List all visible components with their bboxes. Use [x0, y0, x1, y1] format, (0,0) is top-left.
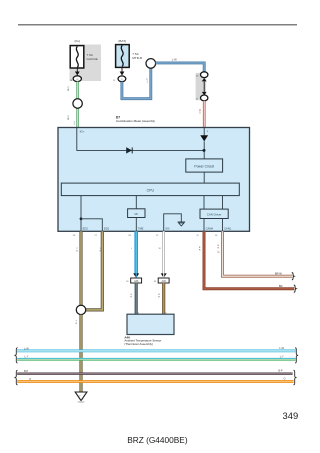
connector arrow down: [202, 92, 207, 95]
CAN driver box: [200, 209, 228, 218]
svg-text:L-Y: L-Y: [25, 356, 29, 359]
fuse F2 output lead: [121, 67, 123, 71]
continuation brace CANH: [294, 285, 296, 292]
svg-text:TME: TME: [138, 226, 144, 230]
svg-text:O: O: [284, 377, 286, 380]
wire R (to meter): [203, 101, 206, 128]
svg-text:I/F: I/F: [134, 212, 138, 216]
svg-text:(Thermistor Assembly): (Thermistor Assembly): [124, 342, 152, 346]
bus line B-P: [17, 373, 292, 375]
diode D: [126, 147, 132, 153]
svg-text:L-W: L-W: [24, 348, 29, 351]
connector oval (junction in): [201, 72, 208, 78]
svg-text:MTR-B: MTR-B: [132, 56, 142, 60]
bus brace left upper: [15, 348, 18, 363]
internal wire ED1 branch: [81, 219, 102, 232]
connector arrow into block (R wire): [203, 128, 205, 136]
svg-text:O: O: [29, 378, 31, 381]
internal wire TME: [135, 218, 137, 232]
internal wire to power circuit: [203, 141, 205, 159]
fuse block backdrop (IG): [70, 45, 102, 82]
svg-text:CANH: CANH: [206, 226, 214, 230]
connector oval (BAT fuse output): [118, 76, 126, 82]
wire to ground: [79, 315, 82, 392]
svg-text:L-W: L-W: [279, 347, 284, 350]
svg-text:CANL: CANL: [224, 226, 232, 230]
svg-text:GAUGE: GAUGE: [87, 57, 98, 61]
svg-text:A46: A46: [162, 280, 167, 283]
connector arrow into oval (IG): [75, 72, 80, 76]
svg-text:(IG): (IG): [75, 39, 80, 43]
svg-text:1J: 1J: [121, 79, 123, 81]
svg-text:CPU: CPU: [147, 189, 155, 193]
power circuit box: [186, 159, 223, 172]
svg-text:BR: BR: [279, 284, 283, 288]
svg-text:SO-: SO-: [165, 226, 170, 230]
bus line L-Y: [17, 358, 295, 360]
combination meter block D7: [58, 128, 250, 232]
bus brace right lower: [293, 370, 296, 385]
junction dot: [203, 149, 206, 152]
junction connector JC backdrop: [196, 73, 207, 100]
ground symbol: [75, 392, 87, 401]
internal wire SO- to ground: [164, 214, 182, 232]
svg-text:ED1: ED1: [104, 226, 110, 230]
svg-text:Combination Meter Assembly: Combination Meter Assembly: [116, 119, 156, 123]
ambient temperature sensor box A46: [127, 314, 174, 334]
internal wire IG+ run: [77, 128, 204, 151]
svg-text:IG+: IG+: [80, 129, 85, 133]
continuation brace CANL: [292, 273, 294, 280]
connector arrow (SO-): [161, 273, 167, 278]
fuse F1 output lead: [76, 68, 78, 72]
connector C2: [158, 278, 169, 283]
connector arrow (TME): [133, 273, 139, 278]
wire L (BAT feed loop): [122, 68, 151, 99]
svg-text:A46: A46: [134, 280, 139, 283]
wire SO- (W): [162, 231, 165, 273]
bus brace right upper: [295, 348, 298, 363]
CPU box: [61, 183, 239, 196]
wire L-W to junction connector: [156, 63, 205, 72]
svg-text:CAN Driver: CAN Driver: [207, 213, 222, 217]
svg-text:L-Y: L-Y: [280, 355, 284, 358]
connector arrow up: [202, 78, 207, 81]
wire CANH (BR): [204, 231, 294, 288]
wire TME (L): [134, 231, 138, 273]
bus brace left lower: [15, 370, 18, 385]
wire BR to sensor: [162, 283, 165, 314]
splice junction J3: [76, 305, 85, 314]
junction wire: [203, 82, 205, 92]
svg-text:B-P: B-P: [278, 370, 283, 373]
svg-text:Power Circuit: Power Circuit: [194, 164, 214, 168]
svg-text:BR-W: BR-W: [275, 272, 282, 276]
junction dot: [80, 217, 83, 220]
internal wires CAN driver: [203, 196, 205, 210]
header rule: [18, 24, 297, 26]
wire ED1 ground: [86, 231, 103, 310]
splice junction J1: [73, 99, 82, 108]
svg-text:349: 349: [283, 410, 299, 421]
internal ground symbol: [178, 221, 186, 223]
svg-text:(BAT): (BAT): [118, 39, 126, 43]
I/F box: [128, 209, 145, 218]
internal wire to I/F: [135, 196, 137, 209]
internal wire power to CPU: [203, 172, 205, 183]
internal wires CANH CANL: [203, 219, 205, 232]
wire GR to sensor: [135, 283, 138, 314]
wire CANL (BR-W): [223, 231, 293, 276]
wire G (IG feed): [76, 82, 79, 128]
bus line O: [17, 380, 293, 383]
svg-text:B-P: B-P: [24, 370, 29, 373]
splice junction J2: [146, 59, 156, 69]
svg-text:L-W: L-W: [172, 58, 177, 62]
fuse F2 (BAT) 7.5A MTR-B: [116, 45, 130, 68]
internal wire ED2: [80, 196, 82, 232]
fuse F1 (IG) 7.5A GAUGE: [70, 46, 84, 68]
svg-text:ED2: ED2: [83, 226, 89, 230]
svg-text:BRZ (G4400BE): BRZ (G4400BE): [127, 435, 188, 445]
connector C1: [131, 278, 142, 283]
connector oval (junction out): [201, 95, 208, 101]
wire ED2 ground: [79, 231, 82, 305]
connector arrow into oval (BAT): [120, 72, 125, 76]
svg-text:1J: 1J: [113, 80, 115, 82]
bus line L-W: [17, 350, 295, 353]
connector oval (IG fuse output): [73, 76, 81, 82]
